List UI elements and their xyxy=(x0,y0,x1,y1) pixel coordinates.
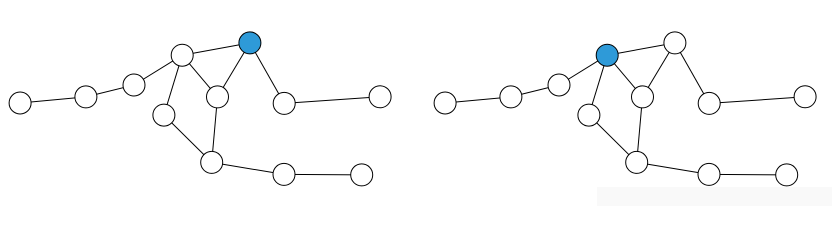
edge 10-11 xyxy=(212,162,284,174)
edge 11-12 xyxy=(284,173,362,176)
node 6 (right) xyxy=(632,86,654,108)
edge 1-2 (right) xyxy=(445,97,511,103)
node 8 (right) xyxy=(794,86,816,108)
node 11 xyxy=(273,163,295,185)
LEFT GRAPH xyxy=(9,32,391,186)
node 2 (right) xyxy=(500,86,522,108)
node 6 xyxy=(207,86,229,108)
node 3 xyxy=(123,74,145,96)
edge 11-12 (right) xyxy=(709,173,787,176)
edge 5-6 (right) xyxy=(643,43,675,97)
node 10 (right) xyxy=(626,151,648,173)
edge 6-10 (right) xyxy=(637,97,643,162)
edge 4-9 xyxy=(164,55,182,115)
node 4 (right) (highlighted blue) xyxy=(596,44,618,66)
edge 4-5 (right) xyxy=(607,43,675,55)
node 2 xyxy=(75,86,97,108)
node 12 xyxy=(351,164,373,186)
edge 9-10 xyxy=(164,115,212,162)
node 7 (right) xyxy=(698,92,720,114)
edge 4-6 xyxy=(182,55,217,97)
node 1 xyxy=(9,92,31,114)
node 8 xyxy=(369,86,391,108)
node 5 (right) xyxy=(664,32,686,54)
node 7 xyxy=(273,92,295,114)
edge 10-11 (right) xyxy=(637,162,709,174)
node 12 (right) xyxy=(776,164,798,186)
node 5 (highlighted blue) xyxy=(239,32,261,54)
edge 1-2 xyxy=(20,97,86,103)
node 1 (right) xyxy=(434,92,456,114)
RIGHT GRAPH (same layout shifted +425px) xyxy=(434,32,816,186)
edge 3-4 xyxy=(134,55,182,85)
node 9 xyxy=(153,104,175,126)
faint scrollbar band bottom right xyxy=(597,187,832,206)
node 10 xyxy=(201,151,223,173)
edge 5-7 xyxy=(250,43,284,104)
edge 7-8 xyxy=(284,97,380,104)
edge 4-5 xyxy=(182,43,250,55)
edge 5-7 (right) xyxy=(675,43,709,104)
edge 4-9 (right) xyxy=(589,55,607,115)
node 9 (right) xyxy=(578,104,600,126)
node 3 (right) xyxy=(548,74,570,96)
node 4 xyxy=(171,44,193,66)
edge 3-4 (right) xyxy=(559,55,607,85)
node 11 (right) xyxy=(698,163,720,185)
edge 5-6 xyxy=(218,43,250,97)
edge 6-10 xyxy=(212,97,218,162)
edge 9-10 (right) xyxy=(589,115,637,162)
edge 7-8 (right) xyxy=(709,97,805,104)
edge 2-3 (right) xyxy=(511,85,559,97)
edge 4-6 (right) xyxy=(607,55,642,97)
edge 2-3 xyxy=(86,85,134,97)
